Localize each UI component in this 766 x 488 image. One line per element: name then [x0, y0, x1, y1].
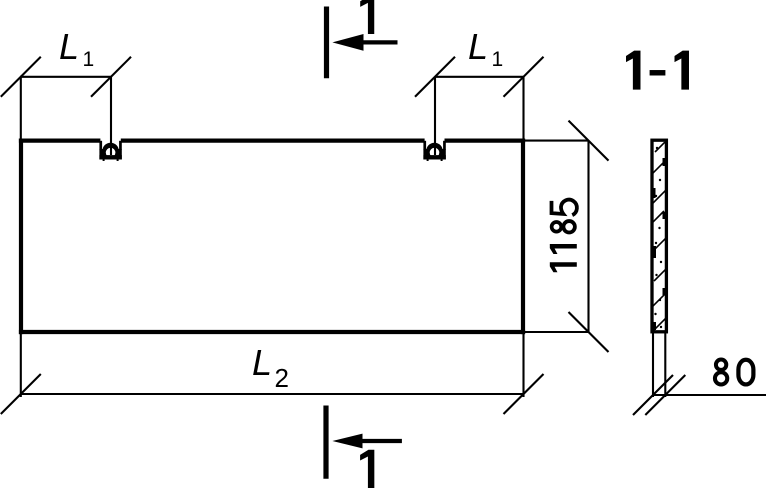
dimension L1 right: extension line right	[522, 77, 524, 139]
label L1 right	[468, 29, 488, 65]
dimension 1185: oblique tick bottom	[569, 312, 609, 352]
label L1 left	[59, 29, 79, 65]
dimension L2: dimension line	[20, 393, 524, 395]
section cut label 1 top	[360, 0, 374, 34]
section view concrete hatch	[652, 141, 667, 331]
dimension L1 left: extension line left	[20, 77, 22, 139]
dimension L1 left: extension line right (through loop)	[110, 77, 112, 155]
dimension 80: extension line right	[664, 333, 666, 397]
section cut mark bottom: arrow shaft	[361, 439, 402, 443]
panel bottom edge	[19, 330, 525, 334]
lifting loop right	[423, 141, 445, 161]
dimension 80: oblique tick left	[633, 375, 673, 415]
dimension 1185: bottom extension line	[525, 331, 589, 333]
dimension 80: extension line left	[652, 333, 654, 397]
dimension 80: oblique tick right	[645, 375, 685, 415]
dimension 1185: dimension line	[587, 141, 589, 332]
section view label 1-1	[626, 51, 689, 90]
dimension L1 left: oblique tick right	[91, 57, 131, 97]
dimension 1185: top extension line	[525, 140, 589, 142]
section cut mark top: arrow head	[332, 34, 363, 51]
panel right edge	[521, 139, 525, 335]
dimension 80: dimension line	[652, 394, 766, 396]
dimension L2: oblique tick left	[1, 374, 41, 414]
section view outline	[652, 140, 666, 332]
dimension L1 right: oblique tick right	[504, 57, 544, 97]
label 1185 (rotated, along right dimension line)	[550, 200, 577, 273]
section cut mark top: arrow shaft	[362, 40, 398, 44]
dimension L2: extension line left	[20, 334, 22, 397]
dimension L2: oblique tick right	[504, 374, 544, 414]
dimension L1 right: dimension line	[435, 76, 524, 78]
dimension L1 right: oblique tick left	[415, 57, 455, 97]
section cut mark bottom: thick line	[323, 406, 328, 479]
panel top edge (3 segments around lifting-loop notches)	[19, 139, 525, 143]
section cut mark bottom: arrow head	[332, 434, 362, 449]
dimension L1 left: oblique tick left	[1, 57, 41, 97]
section cut label 1 bottom	[360, 450, 374, 488]
section cut mark top: thick line	[324, 7, 329, 79]
dimension L1 right: extension line left (through loop)	[434, 77, 436, 155]
dimension L2: extension line right	[522, 334, 524, 397]
panel left edge	[19, 139, 23, 335]
dimension L1 left: dimension line	[20, 76, 111, 78]
dimension 1185: oblique tick top	[569, 121, 609, 161]
lifting loop left	[99, 141, 121, 161]
label L2	[252, 345, 272, 381]
label 80	[715, 360, 753, 385]
